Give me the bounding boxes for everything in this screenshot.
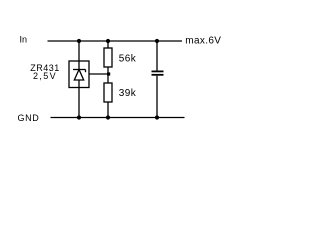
wire R1 bottom lead — [107, 67, 109, 83]
wire R2 bottom lead — [107, 102, 109, 118]
junction bottom rail at regulator branch — [77, 115, 81, 119]
junction top rail at divider branch — [106, 39, 110, 43]
node In label — [20, 35, 28, 45]
junction bottom rail at divider branch — [106, 115, 110, 119]
wire top rail — [48, 40, 183, 42]
wire capacitor top lead — [156, 41, 158, 71]
label 39k — [119, 88, 137, 99]
node max.6V label — [185, 36, 221, 47]
capacitor C1 — [152, 71, 164, 74]
svg-text:In: In — [20, 35, 28, 45]
junction top rail at regulator branch — [77, 39, 81, 43]
svg-text:2,5V: 2,5V — [33, 71, 57, 81]
junction divider tap node — [107, 72, 110, 75]
wire reference pin to divider tap — [89, 73, 109, 75]
wire regulator bottom lead — [78, 88, 80, 118]
wire R1 top lead — [107, 41, 109, 48]
node GND label — [18, 113, 40, 123]
svg-text:39k: 39k — [119, 88, 137, 99]
wire bottom rail — [51, 117, 185, 119]
svg-text:max.6V: max.6V — [185, 36, 221, 47]
junction bottom rail at capacitor branch — [155, 115, 159, 119]
resistor R2 39k — [104, 83, 112, 102]
label ZR431 2,5V — [30, 63, 60, 81]
wire capacitor bottom lead — [156, 76, 158, 118]
svg-text:GND: GND — [18, 113, 40, 123]
label 56k — [119, 54, 137, 65]
shunt regulator U1 ZR431 body — [69, 61, 89, 88]
wire regulator top lead — [78, 41, 80, 61]
resistor R1 56k — [104, 48, 112, 67]
svg-text:56k: 56k — [119, 54, 137, 65]
junction top rail at capacitor branch — [155, 39, 159, 43]
